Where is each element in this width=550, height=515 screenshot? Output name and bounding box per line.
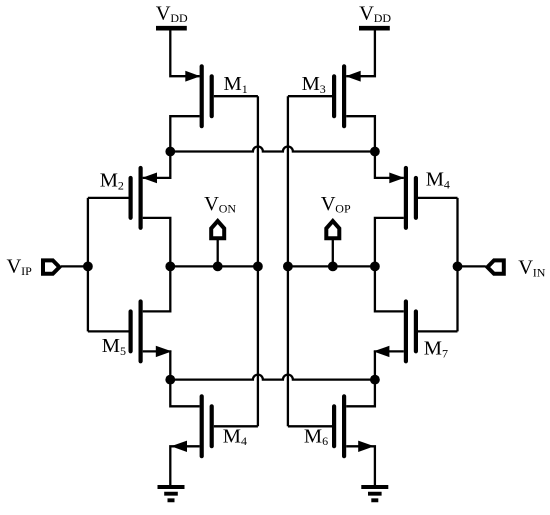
transistor M4 (PMOS mid-right): [389, 168, 450, 228]
power VDD (left) bar symbol: [156, 26, 187, 31]
svg-text:M: M: [100, 170, 118, 192]
svg-text:4: 4: [444, 177, 450, 191]
port VON symbol: [211, 221, 224, 238]
ground (right): [361, 487, 388, 500]
svg-text:M: M: [304, 425, 322, 447]
wire VOP stem: [332, 240, 334, 267]
node VOP stem junction: [328, 262, 338, 272]
wire VIP vertical (M2 gate to M5 gate): [87, 198, 89, 332]
svg-text:V: V: [359, 3, 374, 25]
transistor M3 (PMOS top-right): [302, 66, 361, 126]
node mid-left on center vertical: [253, 262, 263, 272]
wire M4 gate lead (lower left): [214, 425, 258, 427]
wire VON stem: [217, 240, 219, 267]
wire top bus with hops over center verticals: [170, 147, 375, 152]
wire M6 drain from bottom bus: [346, 380, 375, 407]
port VIN symbol: [487, 260, 503, 273]
node mid-left M2/M5 drain junction: [165, 262, 175, 272]
ground (left): [158, 487, 185, 500]
wire M3 drain to top bus: [346, 116, 375, 151]
svg-text:2: 2: [118, 178, 124, 192]
transistor M1 (PMOS top-left): [185, 66, 247, 126]
wire M1 gate lead: [214, 95, 258, 97]
svg-text:1: 1: [242, 82, 248, 96]
wire VIP stub: [61, 265, 88, 267]
VIN label: [518, 257, 546, 280]
svg-text:3: 3: [320, 82, 326, 96]
wire M2 gate lead: [88, 197, 129, 199]
svg-text:M: M: [102, 335, 120, 357]
wire bottom bus with hops over center verticals: [170, 375, 375, 380]
VON label: [204, 193, 236, 216]
wire M4 source to ground: [170, 446, 199, 485]
svg-text:IN: IN: [533, 266, 546, 280]
svg-text:M: M: [302, 73, 320, 95]
node top bus left junction: [165, 147, 175, 157]
svg-text:V: V: [7, 255, 22, 277]
wire center-right vertical (M3 gate to M6 gate, VOP net): [287, 96, 289, 426]
svg-text:M: M: [424, 338, 442, 360]
svg-text:7: 7: [442, 346, 448, 360]
VDD right label: [359, 3, 391, 26]
wire M2 source from top bus: [143, 152, 171, 178]
wire M5 drain up to mid line: [143, 266, 171, 311]
wire M5 gate lead: [88, 330, 129, 332]
svg-text:ON: ON: [219, 202, 237, 216]
svg-text:4: 4: [241, 434, 247, 448]
wire M4 drain down to mid line (upper right): [375, 218, 404, 267]
svg-text:V: V: [321, 193, 336, 215]
transistor M5 (NMOS lower-left): [102, 302, 172, 362]
svg-text:6: 6: [322, 434, 328, 448]
wire M7 source down to bottom bus: [375, 351, 404, 379]
transistor M2 (PMOS mid-left): [100, 168, 157, 228]
wire VIN vertical (M4 gate to M7 gate): [456, 198, 458, 332]
svg-text:V: V: [156, 3, 171, 25]
node VIN junction: [453, 262, 463, 272]
wire M4 gate lead (upper right): [418, 197, 458, 199]
node mid-right on center vertical: [283, 262, 293, 272]
svg-text:V: V: [204, 193, 219, 215]
VIP label: [7, 255, 33, 278]
wire M1 drain to top bus: [170, 116, 199, 151]
wire mid line left (VON net): [170, 265, 258, 267]
transistor M6 (NMOS bottom-right): [304, 396, 374, 456]
power VDD (right) bar symbol: [359, 26, 390, 31]
wire M4 source from top bus (upper right): [375, 152, 404, 178]
wire M7 drain up to mid line: [375, 266, 404, 311]
port VIP symbol: [43, 260, 59, 273]
svg-text:M: M: [224, 73, 242, 95]
svg-text:DD: DD: [374, 11, 392, 25]
transistor M4 (NMOS bottom-left): [171, 396, 247, 456]
wire M4 drain from bottom bus (lower left): [170, 380, 199, 407]
wire VDD-right drop to M3 source: [346, 28, 375, 76]
svg-text:IP: IP: [21, 264, 32, 278]
node VON stem junction: [213, 262, 223, 272]
VOP label: [321, 193, 351, 216]
port VOP symbol: [326, 221, 339, 238]
svg-text:5: 5: [120, 344, 126, 358]
node top bus right junction: [370, 147, 380, 157]
wire M7 gate lead: [418, 330, 458, 332]
wire M3 gate lead: [288, 95, 332, 97]
wire VDD-left drop to M1 source: [170, 28, 199, 76]
node bottom bus left junction: [165, 375, 175, 385]
node VIP junction: [83, 262, 93, 272]
wire VIN stub: [458, 265, 486, 267]
wire M2 drain down to mid line: [143, 218, 171, 267]
wire mid line right (VOP net): [288, 265, 375, 267]
VDD left label: [156, 3, 188, 26]
node mid-right M4/M7 drain junction: [370, 262, 380, 272]
svg-text:OP: OP: [335, 202, 351, 216]
svg-text:DD: DD: [170, 11, 188, 25]
wire center-left vertical (M1 gate to M4 gate, VON net): [257, 96, 259, 426]
wire M6 source to ground: [346, 446, 375, 485]
svg-text:M: M: [426, 169, 444, 191]
svg-text:V: V: [518, 257, 533, 279]
transistor M7 (NMOS lower-right): [373, 302, 448, 362]
node bottom bus right junction: [370, 375, 380, 385]
svg-text:M: M: [223, 425, 241, 447]
wire M5 source down to bottom bus: [143, 351, 171, 379]
wire M6 gate lead: [288, 425, 332, 427]
